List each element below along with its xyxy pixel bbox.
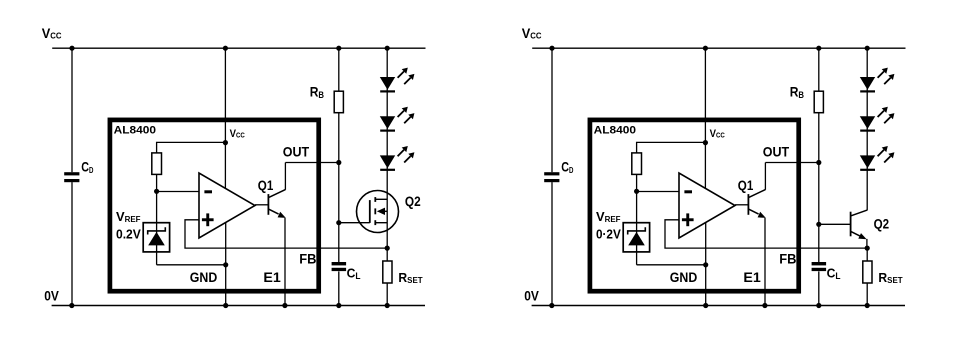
voltage reference box xyxy=(143,223,169,252)
wire RB bottom xyxy=(338,113,340,163)
transistor Q1 xyxy=(255,190,286,218)
svg-text:0V: 0V xyxy=(44,287,59,303)
svg-text:Q1: Q1 xyxy=(738,177,754,193)
op-amp U1A xyxy=(679,173,735,238)
wire LED branch xyxy=(866,48,868,210)
node GND junction xyxy=(703,262,708,267)
svg-text:E1: E1 xyxy=(263,269,281,285)
wire GND pin xyxy=(225,223,227,306)
node RB rail junction xyxy=(816,46,821,51)
wire CL bottom xyxy=(338,271,340,305)
transistor Q2 MOSFET xyxy=(357,191,399,233)
capacitor CD xyxy=(544,172,559,182)
svg-text:AL8400: AL8400 xyxy=(114,125,156,137)
resistor RB xyxy=(814,91,823,113)
wire GND horizontal xyxy=(637,264,706,266)
resistor RSET xyxy=(863,261,872,283)
LED D3 xyxy=(380,146,415,171)
node CL rail junction xyxy=(816,303,821,308)
LED D1 xyxy=(860,68,895,93)
node RSET rail junction xyxy=(865,303,870,308)
node GND rail junction xyxy=(223,303,228,308)
IC U1 AL8400 outline xyxy=(590,120,799,291)
wire left branch lower xyxy=(551,182,553,305)
wire left branch upper xyxy=(71,48,73,172)
wire emitter E1 xyxy=(284,218,286,306)
node FB junction xyxy=(385,246,390,251)
wire inverting input xyxy=(637,191,679,193)
node LED rail junction xyxy=(385,46,390,51)
LED D2 xyxy=(860,107,895,132)
wire RSET top xyxy=(386,248,388,261)
wire CL bottom xyxy=(818,271,820,305)
wire inverting input xyxy=(157,191,199,193)
svg-text:FB: FB xyxy=(779,250,796,266)
resistor R1 internal xyxy=(152,153,162,175)
node inverting input junction xyxy=(634,189,639,194)
capacitor CL xyxy=(332,262,347,271)
node RB rail junction xyxy=(336,46,341,51)
node inverting input junction xyxy=(154,189,159,194)
voltage reference box xyxy=(623,223,649,252)
svg-text:Q1: Q1 xyxy=(258,177,274,193)
node Vcc-left junction xyxy=(549,46,554,51)
node GND rail junction xyxy=(703,303,708,308)
resistor R1 internal xyxy=(632,153,642,175)
wire OUT to CL xyxy=(338,163,340,263)
op-amp U1A xyxy=(199,173,255,238)
node base junction xyxy=(816,222,821,227)
svg-text:AL8400: AL8400 xyxy=(594,125,636,137)
wire OUT xyxy=(765,162,818,164)
capacitor CD xyxy=(64,172,79,182)
node LED rail junction xyxy=(865,46,870,51)
wire resistor top xyxy=(637,142,706,153)
wire GND pin xyxy=(705,223,707,306)
wire emitter E1 xyxy=(764,218,766,306)
wire RSET top xyxy=(866,248,868,261)
wire OUT to CL xyxy=(818,163,820,263)
svg-text:0.2V: 0.2V xyxy=(116,226,141,241)
svg-text:Q2: Q2 xyxy=(405,193,421,209)
wire 0V bottom rail xyxy=(52,305,425,307)
svg-text:OUT: OUT xyxy=(763,144,790,160)
wire Vcc top rail xyxy=(532,47,905,49)
zener diode VREF xyxy=(628,227,646,245)
wire 0V bottom rail xyxy=(532,305,905,307)
svg-text:0V: 0V xyxy=(524,287,539,303)
node OUT junction xyxy=(336,160,341,165)
svg-text:Q2: Q2 xyxy=(874,215,890,231)
node 0V-left junction xyxy=(69,303,74,308)
wire Vcc pin xyxy=(704,48,706,188)
wire Vcc top rail xyxy=(52,47,425,49)
svg-text:OUT: OUT xyxy=(283,144,310,160)
LED D2 xyxy=(380,107,415,132)
wire OUT xyxy=(285,162,338,164)
node E1 rail junction xyxy=(762,303,767,308)
wire LED branch xyxy=(386,48,388,248)
wire resistor top xyxy=(157,142,226,153)
wire RB top xyxy=(338,48,340,91)
wire base lead xyxy=(819,223,850,225)
node E1 rail junction xyxy=(282,303,287,308)
LED D3 xyxy=(860,146,895,171)
resistor RSET xyxy=(383,261,392,283)
wire RB top xyxy=(818,48,820,91)
node Vcc-left junction xyxy=(69,46,74,51)
node Vcc rail junction xyxy=(703,46,708,51)
wire FB feedback xyxy=(185,220,387,248)
node internal Vcc junction xyxy=(703,140,708,145)
wire FB feedback xyxy=(665,220,867,248)
node internal Vcc junction xyxy=(223,140,228,145)
svg-text:0·2V: 0·2V xyxy=(596,226,621,241)
resistor RB xyxy=(334,91,343,113)
node OUT junction xyxy=(816,160,821,165)
wire VREF branch xyxy=(636,174,638,264)
node FB junction xyxy=(865,246,870,251)
transistor Q1 xyxy=(735,190,766,218)
node CL rail junction xyxy=(336,303,341,308)
wire Q1 collector xyxy=(284,163,286,190)
wire left branch upper xyxy=(551,48,553,172)
LED D1 xyxy=(380,68,415,93)
svg-text:E1: E1 xyxy=(743,269,761,285)
node 0V-left junction xyxy=(549,303,554,308)
wire left branch lower xyxy=(71,182,73,305)
wire RSET bottom xyxy=(866,283,868,306)
node gate junction xyxy=(336,220,341,225)
wire Vcc pin xyxy=(224,48,226,188)
wire Q2 emitter xyxy=(866,239,868,248)
node GND junction xyxy=(223,262,228,267)
IC U1 AL8400 outline xyxy=(110,120,319,291)
wire RSET bottom xyxy=(386,283,388,306)
svg-text:GND: GND xyxy=(190,269,218,285)
svg-text:FB: FB xyxy=(299,250,316,266)
node Vcc rail junction xyxy=(223,46,228,51)
capacitor CL xyxy=(812,262,827,271)
node RSET rail junction xyxy=(385,303,390,308)
wire gate lead xyxy=(339,222,370,224)
wire GND horizontal xyxy=(157,264,226,266)
wire VREF branch xyxy=(156,174,158,264)
svg-text:GND: GND xyxy=(670,269,698,285)
wire RB bottom xyxy=(818,113,820,163)
transistor Q2 BJT xyxy=(851,210,868,239)
wire Q1 collector xyxy=(764,163,766,190)
zener diode VREF xyxy=(148,227,166,245)
